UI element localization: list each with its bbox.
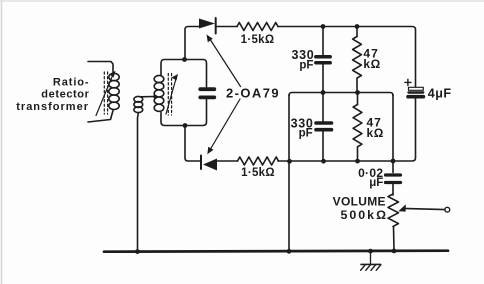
junction bottom diode rail / C002 branch [391,159,396,164]
svg-text:2-OA79: 2-OA79 [226,86,280,101]
svg-text:Ratio-: Ratio- [53,77,90,89]
value label C4 0.02uF [358,166,383,189]
tank circuit loop [161,60,207,126]
transformer T1 secondary winding [154,74,178,116]
wire right branch down (mid rail to C002) [392,95,394,173]
svg-text:500kΩ: 500kΩ [341,208,389,222]
junction top rail / R47 top [355,24,360,29]
resistor R4 47kohm bottom [353,93,362,162]
capacitor C1 330pF top [316,27,330,93]
value label C1 330pF [292,48,315,71]
diode D2 OA79 [201,156,217,171]
value label VR1 VOLUME 500kohm [333,194,388,222]
svg-text:transformer: transformer [16,101,89,113]
svg-text:4μF: 4μF [428,87,452,101]
capacitor C2 330pF bottom [316,93,332,162]
callout arrow to diode D2 [211,99,241,149]
junction mid rail / R47 [355,90,360,95]
wiper arrowhead [398,204,406,211]
junction ground rail / left branch [287,249,292,254]
junction tank bottom node [183,123,188,128]
wire bottom rail [104,251,448,252]
junction ground rail / pot bottom [392,249,397,254]
transformer T1 primary winding [88,62,119,123]
svg-text:1·5kΩ: 1·5kΩ [241,34,275,46]
svg-text:pF: pF [299,59,313,71]
diode D1 OA79 [199,18,216,34]
transformer T1 tertiary winding [134,96,155,251]
svg-text:kΩ: kΩ [363,57,381,71]
junction mid rail / C330 [321,90,326,95]
wire bottom diode rail [185,99,416,162]
junction bottom diode rail / R47 bottom [355,159,360,164]
wire top rail [185,27,416,88]
junction ground rail / tertiary return [135,249,140,254]
part label Ratio-detector transformer [16,77,89,114]
wire wiper to output terminal [403,208,445,209]
capacitor C5 tank tuning [200,89,214,97]
value label R3 47kohm [363,46,381,71]
junction top rail / C330 top [321,24,326,29]
wire pot bottom lead [393,227,396,251]
border left edge [1,0,3,284]
resistor R3 47kohm top [353,27,362,93]
callout arrow to diode D1 [211,40,241,87]
svg-text:detector: detector [41,89,89,101]
svg-text:1·5kΩ: 1·5kΩ [241,167,275,179]
svg-text:VOLUME: VOLUME [333,194,386,208]
svg-text:μF: μF [369,177,383,189]
capacitor C4 0.02uF [386,175,401,195]
output terminal [445,207,450,212]
resistor R2 1.5kohm [238,157,279,165]
value label R4 47kohm [367,116,385,140]
capacitor C3 4uF electrolytic [405,79,424,96]
potentiometer VR1 500k body [388,194,399,226]
junction bottom diode rail / left branch [287,159,292,164]
junction tertiary tap on secondary [153,95,157,99]
value label C2 330pF [291,117,314,140]
resistor R1 1.5kohm [237,23,278,31]
junction ground rail / ground stub [368,249,373,254]
junction bottom diode rail / C330 bottom [321,159,326,164]
svg-text:kΩ: kΩ [367,126,385,140]
ground symbol [361,252,381,271]
svg-text:pF: pF [299,128,313,140]
junction tank top node [182,57,187,62]
border top edge [0,0,484,2]
wire left branch down (mid rail to ground rail) [288,95,290,252]
wire mid rail [289,93,393,96]
